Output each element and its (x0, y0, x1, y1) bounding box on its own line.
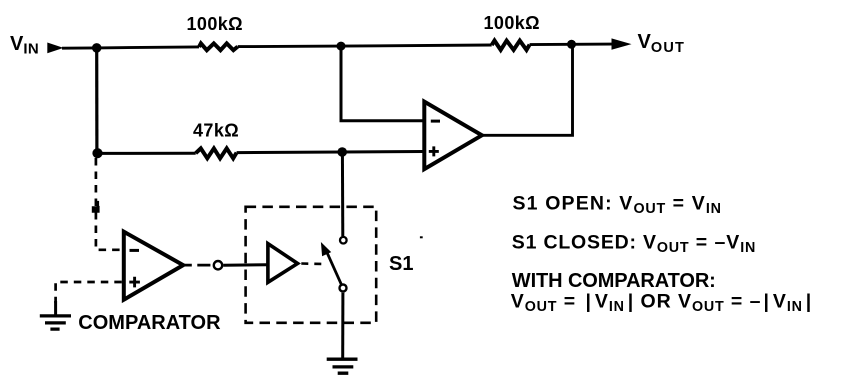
junction node A2 (92, 148, 102, 158)
svg-text:100kΩ: 100kΩ (187, 14, 243, 34)
wire op-amp output up to node C (482, 44, 573, 135)
output arrowhead at VOUT (612, 38, 632, 49)
wire node B down and right to op-amp minus input (341, 46, 424, 121)
wire node D to op-amp plus input (342, 150, 423, 153)
dashed wire node A2 down to comparator minus input (96, 158, 122, 250)
wire node A to resistor R1 (97, 47, 199, 48)
svg-text:100kΩ: 100kΩ (484, 13, 540, 33)
svg-text:WITH COMPARATOR:: WITH COMPARATOR: (512, 270, 716, 292)
junction node D (337, 147, 347, 157)
dashed box S1 (246, 207, 377, 323)
comparator output bubble (214, 261, 222, 269)
ground symbol (comparator) (40, 316, 71, 329)
wire R3 to node D (237, 151, 343, 155)
ground symbol (switch) (327, 359, 358, 373)
wire switch bottom terminal down to ground (341, 293, 344, 358)
switch S1 top terminal circle (340, 237, 347, 244)
junction node B (337, 42, 346, 51)
input arrowhead at VIN (47, 43, 63, 54)
wire comparator output to output bubble (183, 264, 210, 267)
resistor R1 100k zigzag (199, 43, 238, 50)
resistor R2 100k zigzag (492, 41, 530, 50)
stray ink blob on dashed wire (92, 201, 100, 213)
wire R2 to node C and to output arrow (530, 43, 612, 46)
switch S1 bottom terminal circle (340, 285, 347, 292)
wire bubble to buffer input (223, 263, 266, 267)
svg-text:S1: S1 (389, 253, 413, 275)
wire node A2 to resistor R3 (98, 152, 196, 155)
dashed wire buffer output toward switch arm (301, 262, 323, 265)
op-amp U1 plus sign (429, 146, 439, 156)
comparator U2 triangle (124, 232, 183, 300)
wire node D down to switch top terminal (341, 152, 344, 236)
svg-text:S1 CLOSED: VOUT = –VIN: S1 CLOSED: VOUT = –VIN (512, 231, 756, 256)
dashed wire comparator plus input to ground stem (56, 282, 122, 303)
op-amp U1 minus sign (431, 120, 440, 123)
comparator U2 minus sign (130, 249, 140, 252)
wire VIN to node A (62, 46, 97, 49)
comparator U2 plus sign (129, 277, 140, 288)
svg-text:47kΩ: 47kΩ (193, 121, 239, 141)
stray ink dot (420, 236, 423, 238)
svg-text:S1 OPEN: VOUT = VIN: S1 OPEN: VOUT = VIN (513, 192, 722, 217)
switch S1 arm arrowhead (321, 242, 331, 256)
junction node A (92, 43, 102, 53)
junction node C (567, 40, 576, 49)
wire node B to resistor R2 (341, 45, 492, 46)
svg-text:COMPARATOR: COMPARATOR (78, 312, 221, 334)
switch S1 arm (325, 249, 341, 285)
buffer U3 triangle (268, 244, 298, 283)
op-amp U1 triangle (424, 102, 482, 170)
resistor R3 47k zigzag (196, 148, 237, 158)
wire node A down to node A2 (95, 48, 98, 153)
wire R1 to node B (238, 45, 341, 48)
ground stem (comparator) (54, 301, 57, 316)
